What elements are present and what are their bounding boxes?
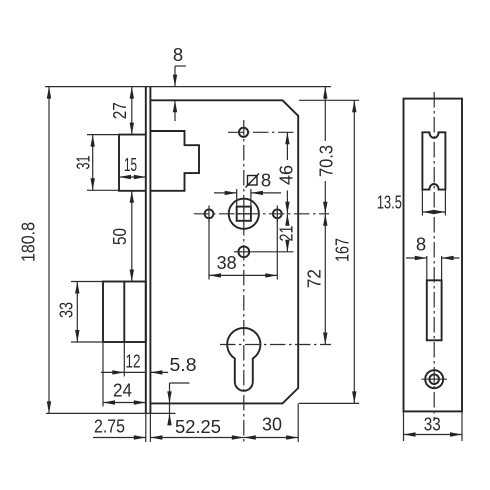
follower horizontal centerline [194,213,329,215]
27 dim [131,87,133,135]
cylinder horizontal centerline [220,344,331,346]
24 [103,400,115,404]
5.8 vertical dim arrows [167,391,171,403]
svg-text:21: 21 [276,226,297,242]
svg-text:50: 50 [109,228,130,245]
right plate 33 dim + extensions [403,411,405,441]
33 [75,282,79,294]
8 top [173,75,177,87]
svg-text:2.75: 2.75 [94,416,125,437]
right 33 [404,432,416,436]
15 [119,175,131,179]
small solid centerline ticks [209,206,277,252]
follower circle [229,199,259,229]
72 [323,214,327,226]
svg-text:33: 33 [56,302,77,318]
167 [352,100,356,112]
faceplate side view [145,87,147,414]
bottom extensions [145,413,147,442]
5.8 vertical dim elbow + shafts [170,382,190,384]
167 dim + extensions [299,99,359,101]
faceplate bottom edge + left extension [46,412,150,414]
svg-text:167: 167 [332,238,353,262]
svg-text:72: 72 [304,269,325,288]
right plate 13.5 dim [421,190,423,216]
square symbol for 8mm square hole label [246,174,260,188]
5.8 [150,370,162,374]
screw hole right [273,209,282,218]
right plate vertical centerline [433,92,435,420]
svg-text:8: 8 [416,234,426,255]
svg-text:38: 38 [217,252,237,273]
svg-text:31: 31 [73,156,94,170]
main vertical centerline [243,120,245,442]
24 dim [103,402,146,404]
arrowheads [47,75,462,440]
svg-text:70.3: 70.3 [316,145,337,177]
top screw hole horizontal centerline [228,131,294,133]
12 [112,370,124,374]
svg-text:180.8: 180.8 [18,222,39,262]
latch head (left of faceplate) [119,135,146,191]
72 dim [324,214,326,345]
8 top dim [174,66,176,87]
svg-text:24: 24 [113,380,132,401]
hole below follower [238,246,249,257]
svg-text:5.8: 5.8 [170,354,197,375]
centerlines dash-dot [194,92,434,442]
svg-text:52.25: 52.25 [175,416,221,437]
right plate 8 dim [406,257,427,259]
180.8 [47,87,51,99]
square hole dim [214,192,237,194]
deadbolt lower extensions [102,342,104,407]
50 dim [131,191,133,282]
svg-text:30: 30 [262,414,282,435]
follower square hole [237,207,251,221]
right plate latch hole with notches [422,132,445,189]
46 [285,132,289,144]
38 [209,273,221,277]
euro cylinder profile [227,328,260,391]
lock body outline [150,100,298,403]
15 dim [119,176,146,178]
right plate deadbolt slot [427,280,442,340]
svg-text:8: 8 [173,44,183,65]
solid cross inside follower square [236,213,253,215]
21 [285,214,289,226]
svg-text:8: 8 [261,170,271,191]
deadbolt box [103,282,146,343]
latch inner stepped shape [150,131,199,191]
right plate screw hole outer [425,370,443,388]
70.3 [323,87,327,99]
33 dim + extensions [71,281,103,283]
square 8 [225,191,237,195]
svg-text:27: 27 [109,102,130,119]
right plate screw hole inner [429,374,439,384]
70.3 dim (broken for label) [324,87,326,141]
46 dim (broken for label) [286,132,288,160]
svg-text:33: 33 [424,414,441,435]
svg-text:46: 46 [276,165,297,185]
12 dim line [101,371,146,373]
13.5 [422,210,434,214]
21 dim + extension [250,251,294,253]
5.8 tail [150,371,168,373]
deadbolt step line [123,282,125,343]
svg-text:15: 15 [124,154,137,175]
38 dim + extensions [208,220,210,280]
faceplate top edge + extensions [45,86,331,88]
2.75 [134,435,146,439]
27 [130,87,134,99]
180.8 dim line [48,87,50,414]
52.25 [150,435,162,439]
svg-text:13.5: 13.5 [377,192,402,213]
bottom chain dim line [93,437,146,439]
svg-text:12: 12 [126,351,141,372]
thin lines: extensions + dimension lines [45,66,462,442]
50 [130,191,134,203]
31 [91,135,95,147]
top screw hole [239,128,248,137]
right plate outline [404,99,463,412]
right plate screw hole cross [422,378,448,380]
faceplate bottom edge right extension [150,412,175,414]
30 [244,435,256,439]
right 8 [415,256,427,260]
screw hole left [205,209,214,218]
31 dim + extensions [87,134,119,136]
